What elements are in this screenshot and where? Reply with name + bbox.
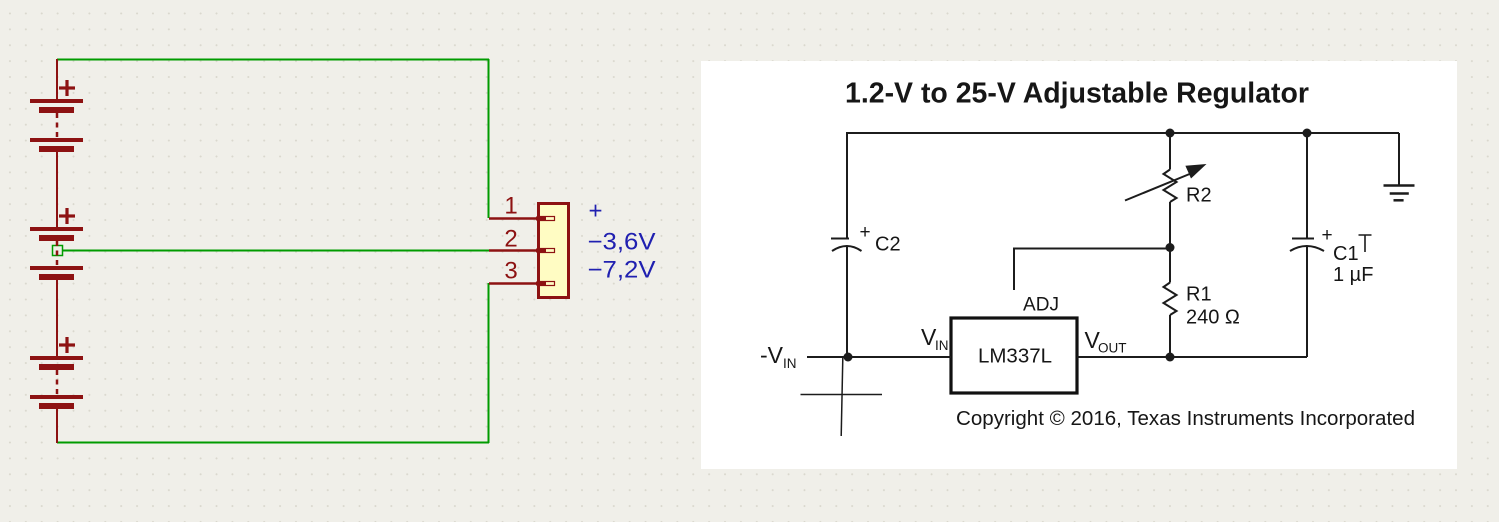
svg-text:2: 2: [504, 226, 517, 253]
node dangling wire-end square at battery BT2 midpoint: [53, 246, 63, 256]
svg-text:IN: IN: [935, 338, 949, 353]
svg-text:1.2-V to 25-V Adjustable Regul: 1.2-V to 25-V Adjustable Regulator: [845, 78, 1309, 110]
net label +: [588, 198, 602, 225]
connector J1 body: [536, 204, 569, 298]
connector J1 pin 2 wire: [489, 249, 537, 252]
wire top net +: [57, 59, 489, 61]
wire battery chain vertical: [56, 59, 58, 443]
svg-text:3: 3: [504, 258, 517, 285]
svg-text:−7,2V: −7,2V: [588, 257, 656, 284]
svg-text:C2: C2: [875, 234, 901, 256]
resistor R2 (variable): [1125, 132, 1212, 247]
pin label VIN: [921, 324, 949, 353]
pin number 3: [504, 258, 517, 285]
svg-text:-V: -V: [760, 342, 784, 368]
svg-text:+: +: [859, 222, 870, 243]
wire VOUT to C1: [1077, 356, 1307, 358]
wire ADJ: [1014, 249, 1170, 291]
svg-text:OUT: OUT: [1098, 341, 1127, 356]
svg-text:LM337L: LM337L: [978, 345, 1052, 368]
connector J1 pin 3 wire: [489, 282, 537, 285]
net label -VIN: [760, 342, 797, 371]
wire left branch (input): [846, 132, 848, 357]
battery BT3: [30, 337, 83, 409]
ground: [1384, 133, 1415, 200]
svg-text:−3,6V: −3,6V: [588, 229, 656, 256]
svg-text:+: +: [588, 198, 602, 225]
wire middle tap (battery BT2 midpoint to pin 2): [62, 250, 489, 252]
svg-text:1 µF: 1 µF: [1333, 264, 1373, 286]
crosshair cursor mark: [801, 358, 883, 436]
wire bottom: [57, 442, 489, 444]
pin number 2: [504, 226, 517, 253]
pin label VOUT: [1085, 327, 1127, 356]
svg-text:IN: IN: [783, 356, 797, 371]
svg-text:R2: R2: [1186, 185, 1212, 207]
title 1.2-V to 25-V Adjustable Regulator: [845, 78, 1309, 110]
node junction dot top C1: [1303, 129, 1312, 138]
capacitor C1: [1290, 132, 1373, 357]
wire right upper (to pin 1): [488, 59, 490, 218]
node junction dot top R2: [1166, 129, 1175, 138]
wire top rail: [847, 132, 1399, 134]
wire right lower (pin 3 down): [488, 283, 490, 443]
node junction dot ADJ: [1166, 243, 1175, 252]
svg-text:Copyright © 2016, Texas Instru: Copyright © 2016, Texas Instruments Inco…: [956, 408, 1415, 430]
wire -VIN to U1: [807, 356, 951, 358]
svg-text:+: +: [1321, 225, 1332, 246]
battery BT1: [30, 80, 83, 152]
svg-text:C1: C1: [1333, 243, 1359, 265]
svg-text:ADJ: ADJ: [1023, 295, 1059, 316]
battery BT2: [30, 208, 83, 280]
svg-text:1: 1: [504, 193, 517, 220]
svg-text:240 Ω: 240 Ω: [1186, 307, 1240, 329]
pin number 1: [504, 193, 517, 220]
connector J1 pin 1 wire: [489, 217, 537, 220]
copyright note: [956, 408, 1415, 430]
capacitor C2: [831, 222, 901, 256]
op-amp-style regulator U1 LM337L: [951, 318, 1077, 393]
net label -7,2V: [588, 257, 656, 284]
node junction dot -VIN: [844, 353, 853, 362]
node junction dot VOUT: [1166, 353, 1175, 362]
net label -3,6V: [588, 229, 656, 256]
pin label ADJ: [1023, 295, 1059, 316]
svg-text:R1: R1: [1186, 284, 1212, 306]
resistor R1: [1164, 247, 1240, 357]
TI figure white panel: [701, 61, 1457, 469]
